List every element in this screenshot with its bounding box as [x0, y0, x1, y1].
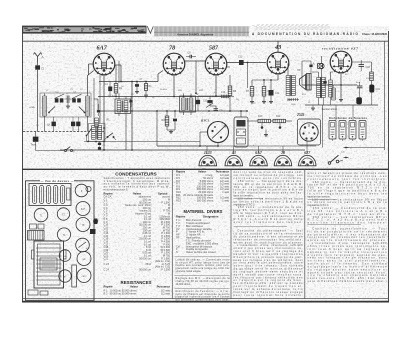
capacitor C24b	[71, 122, 75, 127]
oscillator coil L3	[91, 126, 93, 140]
chassis trimmer rects	[30, 224, 37, 229]
svg-text:MATERIEL DIVERS: MATERIEL DIVERS	[184, 209, 223, 214]
svg-text:R13: R13	[176, 198, 181, 202]
capacitor C20b	[357, 85, 363, 87]
wire T1 connections	[115, 97, 117, 100]
svg-text:026A: 026A	[30, 106, 36, 109]
svg-text:Puissance: Puissance	[157, 285, 171, 289]
distributor blocks	[329, 121, 336, 140]
wire 6A7 left down	[89, 63, 94, 65]
tube 43	[267, 52, 289, 74]
capacitor C4b	[97, 110, 100, 112]
svg-text:587: 587	[209, 46, 219, 52]
ground 43	[251, 100, 253, 102]
wire L2 to 6A7 grid	[87, 76, 89, 93]
page right border	[388, 31, 390, 302]
resistor R5	[228, 86, 232, 96]
antenna A	[37, 57, 39, 63]
column rule 1	[171, 169, 173, 298]
wire rail plate	[98, 96, 230, 98]
socket culot 78	[274, 155, 292, 165]
svg-text:yonnette métal exigée.: yonnette métal exigée.	[176, 269, 202, 273]
svg-text:Désignation: Désignation	[203, 214, 219, 218]
trimmer det	[206, 103, 213, 108]
svg-text:S: S	[176, 250, 178, 254]
chassis circle T1	[34, 208, 48, 222]
svg-text:1/2 watt: 1/2 watt	[161, 292, 170, 296]
resistor R7	[250, 87, 254, 97]
wire HT rail	[302, 84, 357, 86]
input coil box	[40, 93, 91, 117]
wire osc feeds	[93, 78, 95, 124]
svg-text:C14: C14	[275, 92, 280, 95]
svg-text:6A7: 6A7	[255, 150, 263, 155]
capacitor C4	[108, 87, 112, 92]
svg-text:RESISTANCES: RESISTANCES	[121, 280, 152, 285]
wire socket feed rail	[207, 145, 316, 147]
svg-text:Puissance: Puissance	[216, 170, 230, 174]
svg-text:R11: R11	[276, 115, 281, 118]
svg-text:CE22: CE22	[81, 276, 87, 278]
junction dots rails	[115, 96, 117, 98]
capacitor C18	[359, 64, 365, 66]
bandswitch lever G	[84, 112, 86, 114]
svg-text:Valeur de fibre des cosses.: Valeur de fibre des cosses.	[186, 250, 217, 254]
svg-text:Chass : M. BOUVIER: Chass : M. BOUVIER	[362, 32, 388, 36]
potentiometer RTC1	[208, 122, 229, 143]
wire 6A7 plate right	[115, 64, 122, 66]
bandswitch lever P	[48, 112, 50, 114]
wire distributor vertical	[322, 105, 324, 148]
wire pot connections	[200, 131, 208, 133]
resistor R3	[165, 116, 169, 126]
coil L2	[85, 96, 87, 116]
wire 43 top	[277, 41, 279, 52]
capacitor C11	[207, 100, 212, 103]
wire lower rail	[157, 145, 218, 147]
ground R4	[145, 94, 147, 96]
IF transformer T1	[115, 99, 131, 114]
chassis circle CE	[75, 184, 88, 197]
resistor R1	[114, 84, 118, 94]
power transformer TR	[316, 78, 318, 98]
svg-text:Repère: Repère	[176, 214, 186, 218]
banner dark strip	[22, 26, 147, 34]
svg-text:50.000: 50.000	[160, 89, 167, 91]
wire mains right	[384, 41, 386, 150]
ground input	[67, 103, 69, 105]
interrupteur switch	[328, 162, 331, 165]
socket culot 43	[225, 155, 243, 166]
capacitor C21 power	[323, 81, 326, 84]
choke det	[221, 95, 229, 97]
chassis circle 43	[76, 238, 90, 252]
capacitor C2b	[60, 98, 64, 102]
capacitor C1	[35, 65, 40, 69]
socket culot 6A7	[250, 155, 267, 165]
capacitor C22 speaker	[309, 65, 312, 68]
wire top rail stubs	[118, 61, 120, 83]
capacitor C24a	[52, 122, 56, 127]
svg-text:P 1.500: P 1.500	[161, 267, 170, 271]
wire interstage	[99, 81, 158, 83]
svg-text:C13: C13	[238, 56, 243, 59]
chassis circle 6A7b	[59, 270, 71, 282]
svg-text:Repère: Repère	[176, 170, 186, 174]
wire 43 cathode	[277, 74, 279, 80]
schematic bottom rule	[22, 168, 389, 170]
svg-text:CONDENSATEURS: CONDENSATEURS	[115, 171, 157, 176]
chassis circle 6A7	[76, 202, 90, 216]
wire box up	[240, 111, 242, 117]
svg-text:Antenne DIAMEL Argentine: Antenne DIAMEL Argentine	[177, 32, 214, 36]
svg-text:pour toute résultat hors circu: pour toute résultat hors circuits.	[234, 293, 303, 297]
svg-text:Repère: Repère	[104, 285, 114, 289]
svg-text:43: 43	[231, 150, 236, 155]
capacitor C5b	[98, 147, 101, 149]
capacitor C15	[261, 126, 264, 129]
wire transformer top	[318, 72, 320, 78]
svg-text:RTC1: RTC1	[201, 119, 210, 123]
svg-text:PO: PO	[36, 125, 39, 127]
ground 78k	[170, 130, 172, 132]
schematic top rule	[22, 40, 389, 42]
bias resistor R10	[258, 119, 271, 122]
column rule 3	[304, 169, 306, 298]
svg-text:EXC: EXC	[302, 94, 307, 96]
tuning gang block	[29, 184, 71, 206]
svg-text:HP: HP	[297, 69, 301, 72]
svg-text:2525: 2525	[296, 113, 305, 117]
svg-text:TR: TR	[322, 91, 325, 93]
socket 25Z5	[300, 123, 318, 141]
wire misc vertical	[195, 61, 197, 93]
capacitor C9b	[214, 108, 219, 110]
ground power 1	[312, 107, 314, 109]
wire bottom rail power	[305, 104, 378, 106]
wire 78 plate	[185, 60, 206, 62]
chassis knob	[94, 219, 98, 225]
chassis striped block	[28, 231, 45, 241]
junction dot	[103, 127, 105, 129]
column rule 2	[230, 169, 232, 298]
capacitor C16	[279, 126, 282, 129]
resistor R4	[144, 84, 147, 91]
tube 6Z7 rectifier	[330, 51, 352, 73]
wire 6A7 cathode down	[103, 75, 105, 150]
oscillator coil box	[89, 124, 106, 142]
svg-text:— Vue de dessus —: — Vue de dessus —	[41, 179, 74, 183]
chassis circle T2	[57, 208, 69, 220]
chassis label vue de dessus	[40, 179, 74, 183]
ground C7	[136, 90, 138, 92]
wire drops distributor	[335, 105, 337, 120]
svg-text:78: 78	[169, 45, 175, 52]
svg-text:avec les filaments des lampes.: avec les filaments des lampes.	[234, 220, 303, 224]
chassis circle MF2	[77, 252, 91, 266]
wire chassis bus	[60, 149, 305, 151]
svg-text:et du sérieux pour S.: et du sérieux pour S.	[104, 187, 129, 191]
chassis bottom small rects	[28, 290, 38, 295]
banner top-right texture	[257, 24, 330, 26]
wire second bus	[84, 141, 200, 143]
tube 6A7	[93, 53, 115, 75]
wire rect top	[352, 61, 372, 63]
IF transformer T2	[180, 96, 196, 112]
capacitor C5	[98, 143, 101, 145]
svg-text:6A7: 6A7	[81, 208, 86, 211]
svg-text:GO: GO	[47, 125, 51, 127]
choke CH	[331, 88, 333, 100]
svg-text:R10: R10	[258, 115, 263, 118]
speaker HP	[300, 75, 306, 90]
svg-text:78: 78	[281, 150, 285, 155]
wire mid rail	[98, 110, 247, 112]
chassis circle 78	[76, 218, 90, 232]
wire det cluster	[198, 95, 221, 97]
svg-text:50.000 cm: 50.000 cm	[139, 256, 151, 260]
wire 6A7 k2	[99, 75, 101, 124]
capacitor C3a	[72, 98, 76, 102]
svg-text:43: 43	[274, 44, 281, 51]
pilot lamp	[318, 64, 323, 69]
svg-text:500.000 ohms: 500.000 ohms	[197, 198, 214, 202]
oscillator switch	[86, 135, 88, 137]
terminal strip box	[234, 117, 248, 147]
svg-text:A: A	[42, 55, 44, 59]
wire left vertical	[125, 119, 127, 150]
trimmer CT1	[55, 94, 65, 99]
excitation coil	[288, 99, 299, 101]
chassis circle T4	[57, 228, 70, 241]
page left border	[22, 26, 24, 302]
wire drop 43 grid	[247, 63, 249, 89]
wire input bottom bus dashed	[23, 131, 104, 133]
wire 6B7 down	[215, 75, 217, 96]
banner notch	[147, 26, 154, 34]
oscillator coil L4	[97, 126, 99, 140]
chassis shaft	[90, 229, 96, 234]
svg-text:C22: C22	[104, 256, 109, 260]
socket culot 25Z5	[199, 155, 217, 166]
chassis circle MF1	[59, 250, 71, 262]
svg-text:Secteur altern.: Secteur altern.	[322, 108, 339, 111]
resistor R8	[262, 87, 266, 97]
chassis circle CE22	[77, 269, 91, 283]
chassis narrow rect	[72, 265, 77, 287]
capacitor C2a	[55, 98, 59, 102]
wire bias chain	[247, 120, 258, 122]
capacitor C12b	[196, 100, 201, 104]
tube 6B7	[205, 53, 227, 75]
capacitor C14	[269, 90, 274, 96]
capacitor C10	[173, 119, 177, 122]
svg-text:50.000 cm: 50.000 cm	[139, 267, 151, 271]
page bottom rules	[22, 298, 389, 300]
svg-text:C11: C11	[203, 100, 208, 103]
wire 6B7 plate right	[227, 62, 266, 64]
svg-text:1 watt: 1 watt	[222, 190, 229, 194]
ground 6Z7	[340, 98, 342, 100]
svg-text:Distributeur de Tensions: Distributeur de Tensions	[329, 116, 368, 120]
electrolytic C19	[369, 85, 374, 93]
trimmer CT2	[72, 94, 82, 99]
svg-text:25mf: 25mf	[145, 262, 151, 266]
svg-text:8mf: 8mf	[356, 82, 360, 84]
svg-text:C10: C10	[221, 92, 226, 94]
svg-text:C 24: C 24	[104, 267, 110, 271]
mains terminals	[344, 147, 349, 149]
svg-text:1 watt: 1 watt	[222, 198, 229, 202]
svg-text:A DOCUMENTATION DU RADIOMAN-RA: A DOCUMENTATION DU RADIOMAN-RADIO	[252, 32, 359, 36]
svg-text:séré différentes combinaisons: séré différentes combinaisons part abat.…	[308, 279, 387, 283]
svg-text:qui affirment combinaison part: qui affirment combinaison part abat.	[176, 298, 230, 302]
svg-text:Valeur: Valeur	[130, 285, 138, 289]
capacitor C7a	[66, 96, 68, 104]
electrolytic C21b	[356, 97, 362, 104]
svg-text:TR: TR	[176, 236, 180, 240]
capacitor C13	[239, 60, 244, 65]
svg-text:C18: C18	[366, 66, 371, 69]
svg-text:6A7: 6A7	[97, 45, 108, 52]
power transformer block	[34, 241, 64, 288]
svg-text:Valeur: Valeur	[198, 170, 206, 174]
capacitor C7	[135, 84, 139, 87]
resistor R12	[370, 72, 374, 81]
capacitor C9	[189, 55, 191, 59]
wire antenna down	[37, 62, 39, 65]
svg-text:C 23: C 23	[104, 262, 110, 266]
svg-text:10.000 ohms.: 10.000 ohms.	[176, 282, 192, 286]
svg-text:C19: C19	[376, 88, 381, 91]
svg-text:avec les filaments des lampes.: avec les filaments des lampes.	[308, 221, 387, 225]
ground chassis Terre	[33, 137, 39, 142]
socket culot 6B7	[299, 155, 317, 166]
chassis layout box	[26, 181, 95, 300]
coil L1	[42, 96, 44, 116]
tube 78	[163, 53, 185, 75]
distributor stubs	[332, 139, 334, 141]
wire 78 cathode	[173, 75, 175, 97]
ground bias	[265, 121, 267, 134]
wire avc vertical	[131, 82, 133, 151]
socket 25Z5 box	[298, 119, 321, 145]
svg-text:rectification 6Z7: rectification 6Z7	[322, 47, 358, 51]
capacitor C3b	[77, 98, 81, 102]
banner grey strip	[154, 26, 249, 36]
output transformer T3	[285, 76, 287, 96]
svg-text:R 2 50.000 ou 30.000 ohms: R 2 50.000 ou 30.000 ohms	[104, 292, 138, 296]
bias resistor R11	[273, 119, 286, 122]
capacitor C24c	[76, 122, 80, 127]
bandswitch PO-GO	[107, 136, 109, 138]
svg-text:627: 627	[304, 150, 311, 155]
switch V	[64, 149, 66, 151]
osc coupling coil	[94, 118, 96, 127]
capacitor C23 avc	[129, 100, 132, 102]
svg-text:1123: 1123	[204, 150, 212, 155]
